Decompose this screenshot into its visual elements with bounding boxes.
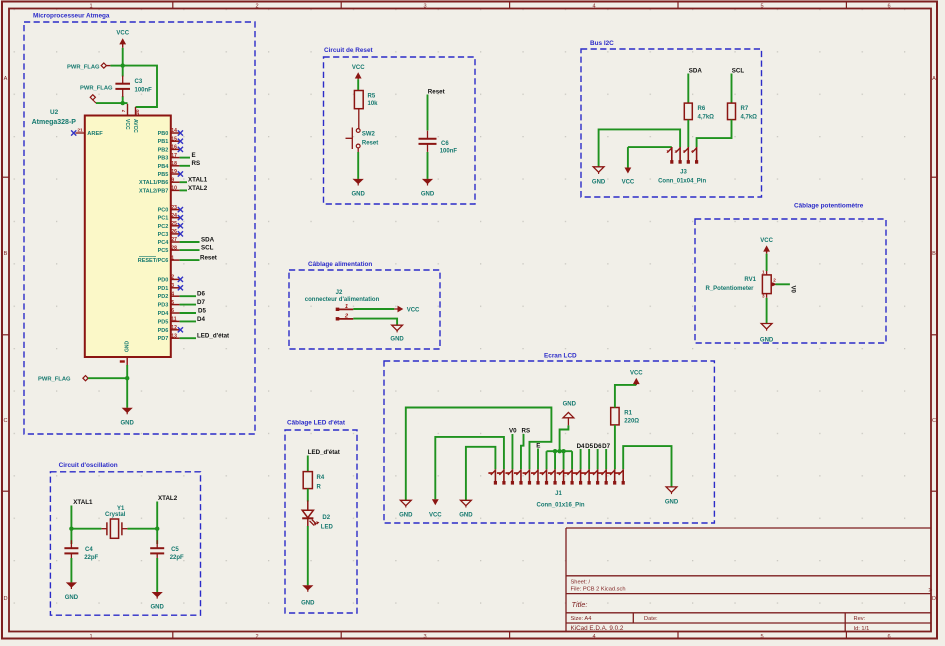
wire PD5 net D4: [180, 320, 196, 322]
svg-text:10k: 10k: [368, 101, 379, 107]
pin 26 PC3: [171, 233, 180, 235]
no-connect PC3: [178, 231, 183, 236]
svg-text:26: 26: [171, 229, 177, 235]
node bus junction 2: [557, 449, 561, 453]
svg-text:XTAL2: XTAL2: [158, 495, 178, 502]
svg-text:PC2: PC2: [158, 224, 169, 230]
no-connect PD1: [178, 285, 183, 290]
wire PB4 net RS: [180, 165, 190, 167]
capacitor: [419, 138, 437, 140]
svg-text:4: 4: [592, 4, 595, 10]
wire R1 to J1 pin15: [614, 425, 616, 469]
svg-text:GND: GND: [125, 341, 131, 353]
wire GND2 to J1 pin1: [466, 447, 496, 501]
LED D2: [307, 501, 309, 511]
pin 10 XTAL2/PB7: [171, 189, 180, 191]
svg-text:PWR_FLAG: PWR_FLAG: [67, 64, 100, 70]
svg-text:C3: C3: [135, 79, 143, 85]
wire R6 to J3 pin3: [687, 120, 689, 147]
wire bus to J1 pin7: [546, 451, 548, 469]
svg-text:Circuit d'oscillation: Circuit d'oscillation: [59, 462, 118, 469]
node C3 bottom junction: [121, 101, 125, 105]
pin 12 PD6: [171, 329, 180, 331]
svg-text:GND: GND: [421, 192, 435, 198]
resistor: [684, 103, 692, 120]
J1 pin 9: [563, 469, 565, 484]
svg-text:100nF: 100nF: [135, 88, 153, 94]
ground LCD right: [666, 487, 677, 492]
svg-text:6: 6: [887, 4, 890, 10]
wire PC5 net SCL: [180, 249, 200, 251]
wire PD7 net LED_d'état: [180, 337, 196, 339]
note box outline: [695, 219, 886, 343]
svg-text:VCC: VCC: [630, 370, 643, 376]
svg-text:4: 4: [592, 634, 595, 640]
svg-text:E: E: [536, 443, 540, 450]
J1 pin 11: [580, 469, 582, 484]
svg-text:2: 2: [773, 278, 776, 283]
svg-text:Câblage LED d'état: Câblage LED d'état: [287, 420, 346, 427]
svg-text:28: 28: [171, 245, 177, 251]
svg-text:RS: RS: [192, 160, 201, 167]
pin 14 PB0: [171, 132, 180, 134]
pin 25 PC2: [171, 225, 180, 227]
pin 2 PD0: [171, 278, 180, 280]
pin 11 PD5: [171, 320, 180, 322]
pin 27 PC4: [171, 241, 180, 243]
svg-text:1: 1: [171, 255, 174, 261]
J1 pin 2: [503, 469, 505, 484]
svg-text:18: 18: [171, 161, 177, 167]
capacitor: [64, 547, 78, 549]
svg-text:SCL: SCL: [732, 67, 745, 74]
svg-text:Ecran LCD: Ecran LCD: [544, 353, 577, 360]
svg-text:J2: J2: [336, 290, 343, 296]
svg-text:LED_d'état: LED_d'état: [197, 333, 229, 340]
svg-text:4: 4: [171, 291, 174, 297]
J1 pin 12: [588, 469, 590, 484]
svg-text:A: A: [4, 76, 8, 82]
svg-text:R7: R7: [741, 106, 749, 112]
no-connect AREF: [71, 130, 76, 135]
wire RV1 to GND: [766, 298, 768, 324]
wire D2 to GND: [307, 526, 309, 585]
no-connect PB0: [178, 130, 183, 135]
ground reset 1: [353, 179, 364, 184]
svg-text:VCC: VCC: [429, 513, 442, 519]
svg-text:D6: D6: [594, 443, 602, 450]
svg-text:PB4: PB4: [158, 164, 170, 170]
wire VCC to RV1: [766, 254, 768, 271]
svg-text:XTAL2/PB7: XTAL2/PB7: [139, 188, 168, 194]
svg-text:12: 12: [171, 325, 177, 331]
op-amp U2 ATmega328-P body: [85, 116, 171, 358]
wire C3 to junction: [122, 96, 124, 103]
svg-text:3: 3: [423, 4, 426, 10]
VCC power top: [122, 42, 124, 48]
svg-text:GND: GND: [352, 192, 366, 198]
VCC power pot: [766, 249, 768, 253]
wire D6 to J1 pin13: [597, 449, 599, 469]
svg-text:13: 13: [171, 333, 177, 339]
node XTAL1 junction: [69, 527, 73, 531]
svg-text:RS: RS: [522, 428, 531, 435]
svg-text:3: 3: [762, 294, 765, 299]
svg-text:Rev:: Rev:: [854, 616, 866, 622]
J1 pin 1: [494, 469, 496, 484]
note box outline: [285, 430, 357, 613]
svg-text:2: 2: [255, 634, 258, 640]
wire XTAL1/PB6 net XTAL1: [180, 181, 187, 183]
svg-text:B: B: [4, 251, 8, 257]
svg-text:23: 23: [171, 205, 177, 211]
svg-text:GND: GND: [390, 337, 404, 343]
svg-text:RESET/PC6: RESET/PC6: [138, 258, 169, 264]
node XTAL2 junction: [155, 527, 159, 531]
wire VCC branch to AVCC pin: [123, 66, 157, 107]
no-connect PB1: [178, 139, 183, 144]
wire V0 to J1 pin3: [511, 434, 513, 469]
wire PWR_FLAG1: [110, 65, 122, 67]
svg-text:14: 14: [171, 128, 177, 134]
svg-text:J1: J1: [555, 491, 562, 497]
U2 bottom GND pin: [126, 357, 128, 365]
svg-text:1: 1: [762, 269, 765, 274]
no-connect PD6: [178, 327, 183, 332]
J1 pin 10: [571, 469, 573, 484]
note box outline: [50, 472, 200, 615]
pin 4 PD2: [171, 295, 180, 297]
node bus junction 1: [553, 449, 557, 453]
svg-text:19: 19: [171, 169, 177, 175]
VCC power I2C (down): [625, 168, 632, 174]
J1 pin 16: [622, 469, 624, 484]
wire VCC stem: [627, 147, 629, 167]
svg-text:VCC: VCC: [760, 238, 773, 244]
svg-text:D5: D5: [198, 307, 206, 314]
no-connect PD0: [178, 277, 183, 282]
title block: [566, 528, 931, 632]
wire R4 to D2: [307, 489, 309, 502]
pin 5 PD3: [171, 304, 180, 306]
svg-text:PD7: PD7: [158, 336, 169, 342]
svg-text:SDA: SDA: [689, 67, 703, 74]
svg-text:9: 9: [171, 177, 174, 183]
J1 pin 6: [537, 469, 539, 484]
svg-text:R1: R1: [624, 410, 632, 416]
ground osc 1: [66, 582, 77, 587]
svg-text:7: 7: [121, 109, 126, 112]
svg-text:C4: C4: [85, 547, 93, 553]
wire RS to J1 pin4: [521, 434, 524, 469]
resistor: [728, 103, 736, 120]
svg-text:Y1: Y1: [117, 506, 125, 512]
svg-text:D: D: [932, 596, 936, 602]
pin 18 PB4: [171, 165, 180, 167]
svg-text:6: 6: [171, 308, 174, 314]
wire R1 to VCC: [615, 385, 636, 408]
connector J2 pin 2: [337, 318, 354, 320]
svg-text:3: 3: [423, 634, 426, 640]
svg-text:SCL: SCL: [201, 245, 214, 252]
VCC power alim (right): [394, 308, 397, 310]
svg-text:VCC: VCC: [407, 308, 420, 314]
svg-text:Circuit de Reset: Circuit de Reset: [324, 47, 374, 54]
svg-text:GND: GND: [760, 338, 774, 344]
svg-text:GND: GND: [151, 604, 165, 610]
no-connect PB2: [178, 147, 183, 152]
svg-text:AVCC: AVCC: [132, 119, 138, 133]
wire GND1 to J1 pin5: [406, 408, 552, 501]
pin 16 PB2: [171, 148, 180, 150]
wire C5 to GND: [156, 558, 158, 592]
J1 pin 3: [511, 469, 513, 484]
note box outline: [24, 22, 255, 434]
svg-text:GND: GND: [301, 601, 315, 607]
wire GND pin down: [126, 365, 128, 408]
svg-text:A: A: [932, 76, 936, 82]
wire junction to C3: [122, 66, 124, 77]
ground LED: [302, 585, 313, 590]
svg-text:AREF: AREF: [87, 131, 103, 137]
wire crystal to XTAL2: [127, 528, 157, 530]
svg-text:PD6: PD6: [158, 328, 169, 334]
connector J2 pin 1: [337, 308, 354, 310]
svg-text:PC0: PC0: [158, 208, 169, 214]
svg-text:5: 5: [171, 300, 174, 306]
svg-text:>: >: [929, 587, 933, 594]
svg-text:Bus I2C: Bus I2C: [590, 40, 614, 47]
svg-text:PWR_FLAG: PWR_FLAG: [80, 86, 113, 92]
svg-text:16: 16: [171, 145, 177, 151]
svg-text:Conn_01x04_Pin: Conn_01x04_Pin: [658, 179, 706, 185]
svg-text:21: 21: [77, 128, 83, 134]
svg-text:PD2: PD2: [158, 294, 169, 300]
capacitor: [115, 83, 130, 85]
wire wiper to V0: [775, 283, 790, 285]
svg-text:R_Potentiometer: R_Potentiometer: [706, 286, 755, 292]
wire PD3 net D7: [180, 304, 196, 306]
svg-text:Sheet: /: Sheet: /: [571, 580, 591, 586]
capacitor: [150, 547, 164, 549]
node VCC junction: [121, 63, 125, 67]
svg-text:PD0: PD0: [158, 277, 169, 283]
pin 24 PC1: [171, 217, 180, 219]
svg-text:PB1: PB1: [158, 139, 169, 145]
frame column ticks: [173, 2, 847, 639]
svg-text:D4: D4: [577, 443, 585, 450]
svg-text:connecteur d'alimentation: connecteur d'alimentation: [305, 297, 380, 303]
pin 9 XTAL1/PB6: [171, 181, 180, 183]
svg-text:Câblage potentiomètre: Câblage potentiomètre: [794, 203, 864, 210]
pin 1 RESET/PC6: [171, 259, 180, 261]
wire D0-D3 bus: [547, 450, 573, 452]
svg-text:SDA: SDA: [201, 236, 215, 243]
wire R7 to J3 pin4: [697, 120, 732, 147]
wire C6 to GND: [427, 152, 429, 179]
svg-text:Id: 1/1: Id: 1/1: [854, 626, 870, 632]
svg-text:D6: D6: [197, 291, 205, 298]
note box outline: [289, 270, 440, 349]
wire junction to VCC pin: [123, 102, 128, 104]
wire PC4 net SDA: [180, 241, 200, 243]
no-connect PC0: [178, 207, 183, 212]
svg-text:GND: GND: [65, 595, 79, 601]
note box outline: [384, 361, 714, 523]
wire PWR_FLAG2: [96, 102, 123, 104]
ground pot: [761, 324, 772, 329]
U2 top power pins: [127, 104, 129, 116]
wire SW2 to GND: [357, 152, 359, 179]
svg-text:4,7kΩ: 4,7kΩ: [741, 115, 758, 121]
svg-text:22pF: 22pF: [84, 555, 98, 561]
svg-text:Reset: Reset: [200, 255, 217, 262]
svg-text:V0: V0: [790, 286, 796, 294]
J3 pin 2: [679, 147, 681, 164]
svg-text:Crystal: Crystal: [105, 512, 126, 518]
svg-text:R4: R4: [317, 475, 325, 481]
svg-text:15: 15: [171, 136, 177, 142]
svg-text:PB5: PB5: [158, 172, 169, 178]
wire J1 pin16 to GND: [623, 446, 671, 487]
J1 pin 5: [528, 469, 530, 484]
svg-text:PWR_FLAG: PWR_FLAG: [38, 377, 71, 383]
wire D4 to J1 pin11: [580, 449, 582, 469]
svg-text:R6: R6: [698, 106, 706, 112]
svg-text:GND: GND: [592, 179, 606, 185]
no-connect PC2: [178, 223, 183, 228]
node PWR_FLAG3 junction: [125, 376, 129, 380]
svg-text:D5: D5: [585, 443, 593, 450]
svg-text:R5: R5: [368, 94, 376, 100]
svg-text:PD4: PD4: [158, 311, 170, 317]
pin 13 PD7: [171, 337, 180, 339]
wire VCC to J1 pin2: [435, 437, 504, 499]
svg-text:GND: GND: [563, 402, 577, 408]
svg-text:4,7kΩ: 4,7kΩ: [698, 115, 715, 121]
svg-text:VCC: VCC: [622, 179, 635, 185]
svg-text:10: 10: [171, 186, 177, 192]
wire SDA to R6: [687, 74, 689, 104]
pin 19 PB5: [171, 173, 180, 175]
svg-text:J3: J3: [680, 169, 687, 175]
wire D5 to J1 pin12: [588, 449, 590, 469]
svg-text:2: 2: [171, 275, 174, 281]
svg-text:B: B: [932, 251, 936, 257]
pin 21 AREF: [76, 132, 85, 134]
svg-text:KiCad E.D.A. 9.0.2: KiCad E.D.A. 9.0.2: [571, 625, 624, 632]
ground reset 2: [422, 179, 433, 184]
J1 pin 15: [614, 469, 616, 484]
svg-text:11: 11: [171, 317, 177, 323]
pin 17 PB3: [171, 157, 180, 159]
frame row ticks: [2, 177, 937, 491]
svg-text:VCC: VCC: [352, 65, 365, 71]
wire E to J1 pin6: [537, 449, 539, 470]
svg-text:C6: C6: [441, 141, 449, 147]
ground I2C: [593, 167, 604, 172]
wire XTAL2/PB7 net XTAL2: [180, 189, 187, 191]
svg-text:PC3: PC3: [158, 232, 169, 238]
svg-text:Date:: Date:: [644, 616, 658, 622]
svg-text:D7: D7: [602, 443, 610, 450]
wire XTAL1 to crystal: [71, 528, 101, 530]
svg-text:PB3: PB3: [158, 156, 169, 162]
svg-text:D4: D4: [197, 316, 205, 323]
pin 28 PC5: [171, 249, 180, 251]
svg-text:Câblage alimentation: Câblage alimentation: [308, 261, 372, 268]
svg-text:E: E: [192, 152, 196, 159]
svg-text:GND: GND: [459, 513, 473, 519]
svg-text:6: 6: [887, 634, 890, 640]
svg-text:XTAL1: XTAL1: [188, 177, 208, 184]
wire VCC to J3 pin1: [628, 146, 672, 148]
VCC power LCD left (down): [432, 499, 439, 505]
PWR_FLAG symbol 1: [101, 63, 106, 68]
wire XTAL2 down: [156, 502, 158, 545]
J3 pin 3: [687, 147, 689, 164]
J1 pin 4: [520, 469, 522, 484]
wire GNDup feed: [560, 425, 569, 451]
svg-text:XTAL1: XTAL1: [73, 499, 93, 506]
potentiometer RV1: [766, 271, 768, 275]
crystal Y1: [101, 528, 107, 530]
svg-text:RV1: RV1: [744, 277, 756, 283]
svg-text:C5: C5: [171, 547, 179, 553]
svg-text:Microprocesseur Atmega: Microprocesseur Atmega: [33, 13, 110, 20]
svg-text:R: R: [317, 485, 322, 491]
svg-text:PD5: PD5: [158, 319, 169, 325]
svg-text:XTAL2: XTAL2: [188, 185, 208, 192]
svg-text:1: 1: [345, 304, 348, 310]
svg-text:GND: GND: [399, 513, 413, 519]
wire J2 pin1 to VCC: [353, 308, 394, 310]
svg-text:Conn_01x16_Pin: Conn_01x16_Pin: [537, 503, 585, 509]
VCC power reset: [357, 76, 359, 79]
wire J2 pin2 to GND: [353, 319, 397, 326]
resistor: [303, 472, 312, 489]
svg-text:24: 24: [171, 213, 177, 219]
wire label to R4: [307, 456, 309, 472]
svg-text:C: C: [932, 418, 936, 424]
svg-text:3: 3: [171, 283, 174, 289]
svg-text:Size: A4: Size: A4: [571, 616, 592, 622]
svg-text:220Ω: 220Ω: [624, 419, 639, 425]
note box outline: [581, 49, 762, 197]
wire SCL to R7: [731, 74, 733, 104]
svg-text:20: 20: [135, 109, 140, 115]
svg-text:PB2: PB2: [158, 147, 169, 153]
wire D7 to J1 pin14: [605, 449, 607, 469]
wire VCC to junction: [122, 48, 124, 66]
VCC power LCD right: [635, 382, 637, 385]
J3 pin 4: [696, 147, 698, 164]
svg-text:1: 1: [89, 634, 92, 640]
wire VCC to R5: [357, 79, 359, 90]
wire PWR_FLAG3: [88, 377, 127, 379]
switch SW2 Reset: [356, 129, 360, 133]
PWR_FLAG symbol 3: [83, 376, 88, 381]
wire bus to J1 pin9: [563, 451, 565, 469]
svg-text:Reset: Reset: [362, 141, 378, 147]
wire bus to J1 pin10: [571, 451, 573, 469]
svg-text:PC5: PC5: [158, 248, 169, 254]
svg-text:File: PCB 2 Kicad.sch: File: PCB 2 Kicad.sch: [571, 587, 626, 593]
ground alim: [392, 325, 403, 330]
pin 3 PD1: [171, 287, 180, 289]
svg-text:Atmega328-P: Atmega328-P: [32, 119, 77, 126]
svg-text:D: D: [3, 596, 7, 602]
